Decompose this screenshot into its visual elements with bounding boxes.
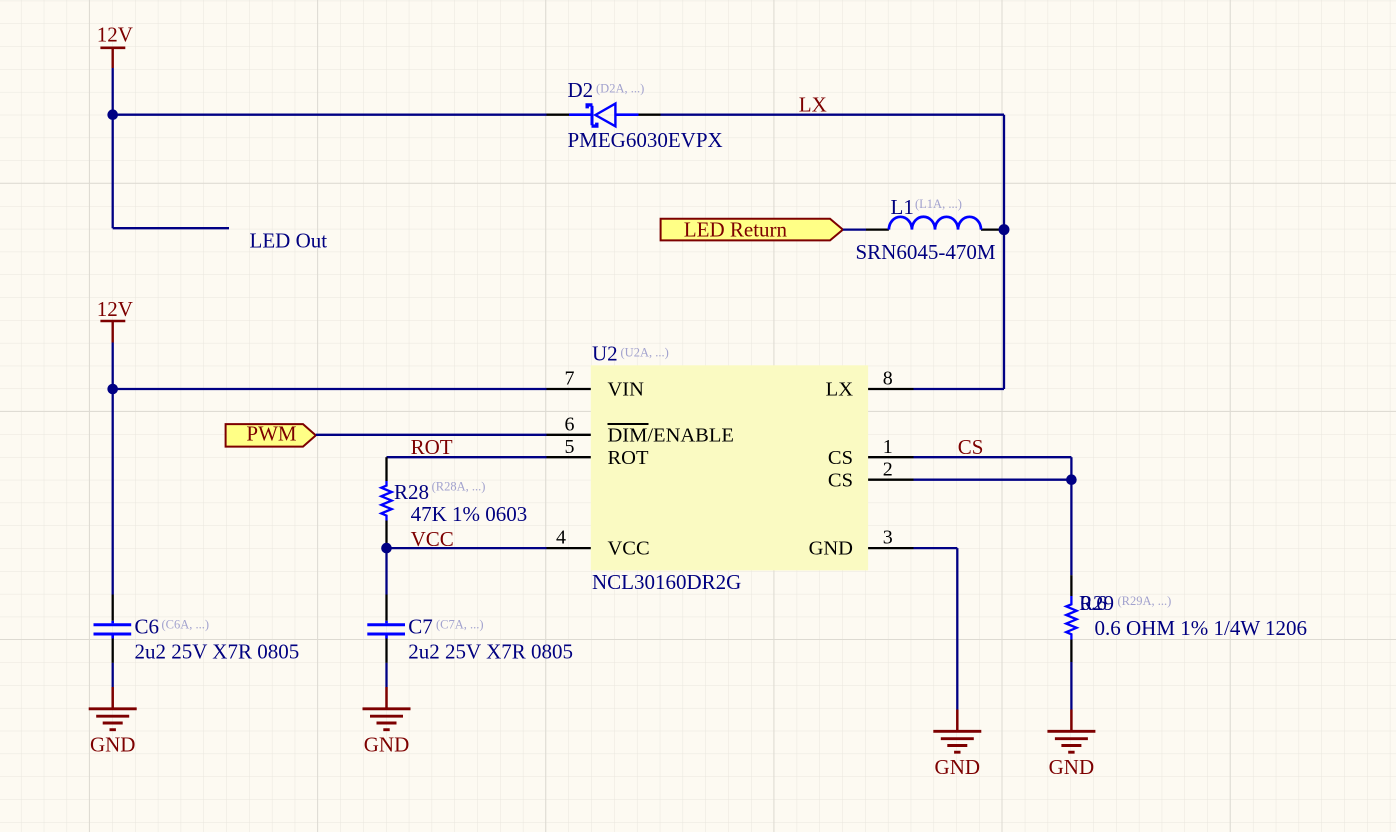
svg-text:D2: D2 — [568, 78, 594, 102]
svg-text:(U2A, ...): (U2A, ...) — [621, 346, 669, 360]
annotation (R29A, ...) — [1118, 594, 1172, 608]
svg-text:ROT: ROT — [411, 435, 453, 459]
junction: R28 / VCC / C7 — [381, 543, 392, 554]
U2 pin 1 CS — [828, 436, 914, 469]
wire LX: D2 cathode to corner — [661, 114, 1005, 116]
wire 12V to VIN junction — [112, 343, 114, 390]
value 2u2 25V X7R 0805 — [135, 640, 300, 664]
svg-text:LED Out: LED Out — [250, 228, 328, 252]
wire pin 3 to GND — [914, 548, 958, 710]
capacitor C7 pin 2 (black lead) — [385, 639, 387, 663]
wire C6 to GND — [112, 663, 114, 687]
port LED Return — [661, 217, 843, 241]
wire 12V to junction — [112, 68, 114, 115]
svg-text:C7: C7 — [408, 614, 433, 638]
junction: 12V / LX rail top — [107, 109, 118, 120]
svg-text:VCC: VCC — [608, 538, 650, 560]
annotation (L1A, ...) — [915, 197, 962, 211]
svg-text:(D2A, ...): (D2A, ...) — [596, 82, 644, 96]
svg-text:4: 4 — [556, 527, 566, 549]
port PWM — [226, 421, 316, 446]
inductor L1 pin 2 (black lead) — [981, 228, 1004, 230]
svg-text:L1: L1 — [891, 195, 914, 219]
svg-text:(C7A, ...): (C7A, ...) — [436, 617, 484, 631]
svg-text:2u2 25V X7R 0805: 2u2 25V X7R 0805 — [408, 640, 573, 664]
inductor L1 coil symbol — [889, 217, 981, 230]
svg-text:LX: LX — [826, 379, 854, 401]
wire junction down to C7 — [385, 548, 387, 594]
wire C7 to GND — [385, 663, 387, 687]
annotation (D2A, ...) — [596, 82, 644, 96]
ground symbol (R29) — [1047, 710, 1095, 780]
svg-text:CS: CS — [828, 447, 853, 469]
overlapping text 0.6 — [1081, 591, 1107, 615]
wire LX junction down to pin 8 — [914, 230, 1005, 389]
svg-text:12V: 12V — [97, 297, 133, 321]
annotation (U2A, ...) — [621, 346, 669, 360]
svg-text:6: 6 — [565, 413, 575, 435]
U2 pin 8 LX — [826, 368, 914, 401]
svg-text:CS: CS — [958, 435, 984, 459]
annotation (C6A, ...) — [162, 617, 210, 631]
capacitor C7 pin 1 (black lead) — [385, 595, 387, 621]
net label CS — [958, 435, 984, 459]
resistor R28 pin 2 (black lead) — [385, 521, 387, 549]
capacitor C6 pin 1 (black lead) — [112, 595, 114, 621]
value SRN6045-470M — [856, 240, 996, 264]
wire CS: pin 1 to corner — [914, 457, 1072, 480]
power port 12V (top) — [97, 23, 133, 69]
svg-text:GND: GND — [1049, 755, 1095, 779]
designator L1 — [891, 195, 914, 219]
ground symbol (C7) — [363, 687, 411, 757]
svg-text:(R28A, ...): (R28A, ...) — [432, 480, 486, 494]
wire LED Out branch — [113, 115, 229, 229]
designator C7 — [408, 614, 433, 638]
svg-text:0.6 OHM 1% 1/4W 1206: 0.6 OHM 1% 1/4W 1206 — [1095, 616, 1308, 640]
svg-text:PWM: PWM — [246, 421, 297, 445]
value 2u2 25V X7R 0805 — [408, 640, 573, 664]
svg-text:GND: GND — [90, 733, 136, 757]
net label LX — [799, 93, 827, 117]
wire R29 to GND — [1070, 662, 1072, 710]
U2 pin 5 ROT — [547, 436, 649, 469]
wire rail down to C6 — [112, 389, 114, 595]
svg-text:VCC: VCC — [411, 527, 454, 551]
U2 pin 4 VCC — [547, 527, 650, 560]
designator C6 — [135, 614, 160, 638]
svg-text:2: 2 — [883, 458, 893, 480]
svg-text:DIM/ENABLE: DIM/ENABLE — [608, 424, 734, 446]
svg-text:NCL30160DR2G: NCL30160DR2G — [592, 570, 741, 594]
net label ROT — [411, 435, 453, 459]
svg-text:12V: 12V — [97, 23, 133, 47]
value 47K 1% 0603 — [411, 502, 528, 526]
capacitor C6 pin 2 (black lead) — [112, 639, 114, 663]
wire PWM to pin 6 — [316, 434, 547, 436]
wire LX vertical down to L1 junction — [1003, 115, 1005, 230]
U2 pin 2 CS — [828, 458, 914, 491]
annotation (C7A, ...) — [436, 617, 484, 631]
value 0.6 OHM 1% 1/4W 1206 — [1095, 616, 1308, 640]
annotation (R28A, ...) — [432, 480, 486, 494]
svg-text:ROT: ROT — [608, 447, 649, 469]
svg-text:(L1A, ...): (L1A, ...) — [915, 197, 962, 211]
svg-text:CS: CS — [828, 469, 853, 491]
designator R28 — [394, 480, 429, 504]
svg-text:(R29A, ...): (R29A, ...) — [1118, 594, 1172, 608]
svg-text:PMEG6030EVPX: PMEG6030EVPX — [568, 128, 723, 152]
svg-text:2u2 25V X7R 0805: 2u2 25V X7R 0805 — [135, 640, 300, 664]
value NCL30160DR2G — [592, 570, 741, 594]
wire VCC: junction to pin 4 — [387, 547, 547, 549]
value PMEG6030EVPX — [568, 128, 723, 152]
designator D2 — [568, 78, 594, 102]
designator U2 — [592, 341, 618, 365]
svg-text:3: 3 — [883, 527, 893, 549]
diode D2 pin 2 (anode lead, black) — [639, 114, 661, 116]
svg-text:U2: U2 — [592, 341, 618, 365]
diode D2 pin 1 (cathode lead, black) — [547, 114, 570, 116]
wire ROT: R28 to pin 5 — [387, 456, 547, 458]
svg-text:LX: LX — [799, 93, 827, 117]
svg-text:LED Return: LED Return — [684, 217, 788, 241]
junction: LX / L1 — [999, 224, 1010, 235]
wire junction down to R29 — [1070, 480, 1072, 576]
op-amp/IC U2 body — [591, 365, 868, 570]
resistor R29 pin 1 (black lead) — [1070, 575, 1072, 596]
junction: 12V / VIN / C6 — [107, 384, 118, 395]
ground symbol (pin 3) — [933, 710, 981, 780]
svg-text:5: 5 — [565, 436, 575, 458]
capacitor C7 plates — [367, 621, 405, 639]
inductor L1 pin 1 (black lead) — [866, 228, 889, 230]
svg-text:SRN6045-470M: SRN6045-470M — [856, 240, 996, 264]
svg-text:VIN: VIN — [608, 379, 645, 401]
U2 pin 7 VIN — [547, 368, 645, 401]
wire CS: pin 2 to junction — [914, 479, 1072, 481]
svg-text:47K 1% 0603: 47K 1% 0603 — [411, 502, 528, 526]
svg-text:0.6: 0.6 — [1081, 591, 1107, 615]
svg-text:GND: GND — [809, 538, 853, 560]
junction: CS / R29 — [1066, 474, 1077, 485]
resistor R28 pin 1 (black lead) — [385, 457, 387, 481]
svg-text:(C6A, ...): (C6A, ...) — [162, 617, 210, 631]
resistor R29 pin 2 (black lead) — [1070, 640, 1072, 663]
wire 12V rail to D2 anode — [113, 114, 547, 116]
U2 pin 3 GND — [809, 527, 914, 560]
designator R29 (overlapped) — [1079, 591, 1114, 615]
wire 12V rail to VIN pin 7 — [113, 388, 547, 390]
resistor R29 zigzag symbol — [1066, 596, 1076, 640]
power port 12V (lower) — [97, 297, 133, 343]
wire port to L1 — [843, 228, 866, 230]
svg-text:7: 7 — [565, 368, 575, 390]
net label VCC — [411, 527, 454, 551]
svg-text:1: 1 — [883, 436, 893, 458]
diode D2 schottky symbol — [569, 104, 639, 127]
svg-text:8: 8 — [883, 368, 893, 390]
svg-text:GND: GND — [364, 733, 410, 757]
U2 pin 6 DIM/ENABLE — [547, 413, 734, 446]
capacitor C6 plates — [94, 621, 132, 639]
svg-text:C6: C6 — [135, 614, 160, 638]
resistor R28 zigzag symbol — [381, 481, 391, 521]
ground symbol (C6) — [89, 687, 137, 757]
net label LED Out — [250, 228, 328, 252]
svg-text:GND: GND — [935, 755, 981, 779]
svg-text:R28: R28 — [394, 480, 429, 504]
